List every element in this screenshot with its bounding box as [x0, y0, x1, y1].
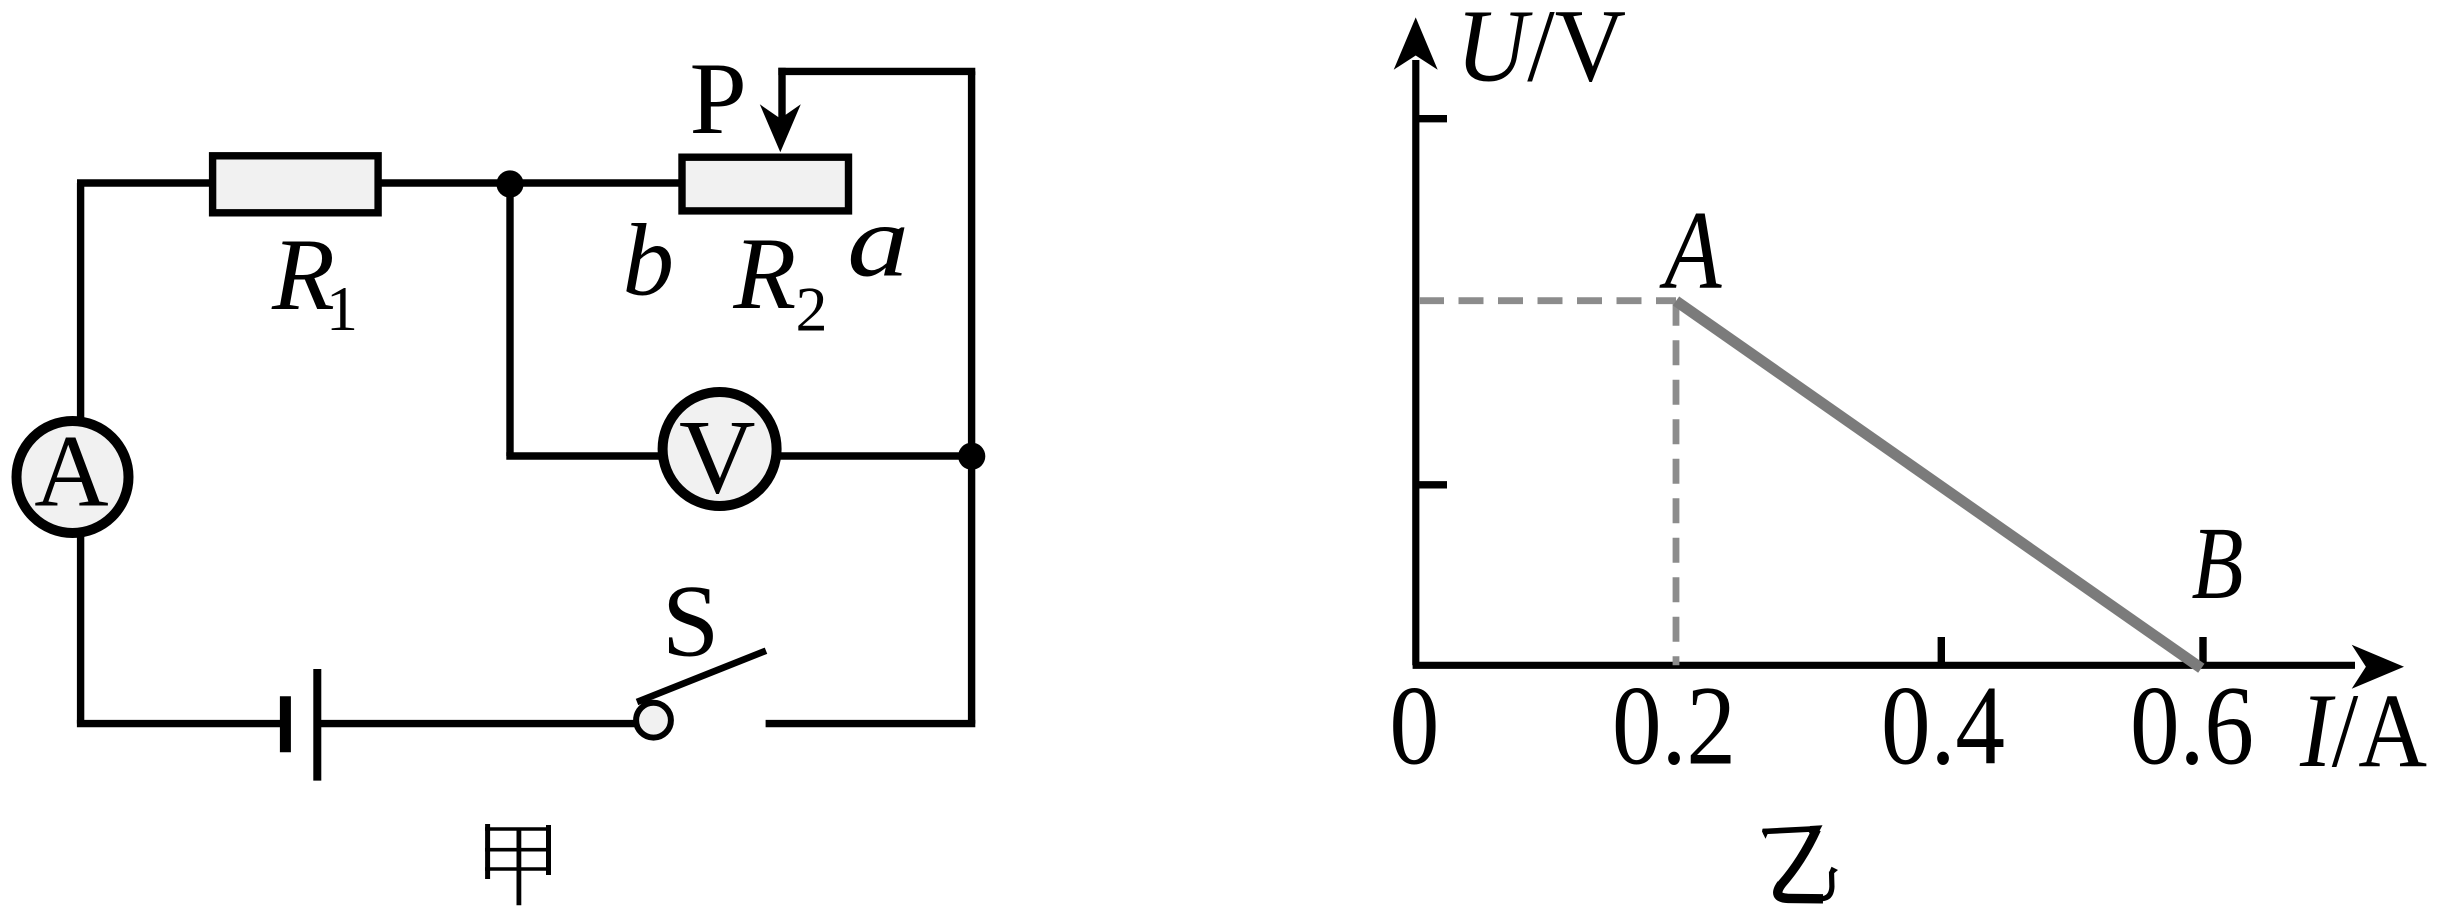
x-axis arrowhead — [2352, 645, 2404, 689]
svg-text:b: b — [623, 204, 675, 318]
wire R1 to R2 — [375, 179, 685, 186]
svg-text:B: B — [2192, 506, 2244, 621]
svg-text:a: a — [847, 185, 909, 299]
voltmeter V circle — [663, 392, 777, 506]
x-axis tick 0.4 — [1938, 637, 1945, 665]
wire to voltmeter — [506, 452, 971, 459]
caption jia (circuit) — [485, 824, 551, 905]
wire bottom left — [77, 720, 285, 727]
x-axis tick 0.6 — [2199, 637, 2206, 665]
battery cell negative short plate — [280, 696, 291, 752]
svg-text:2: 2 — [796, 274, 828, 345]
svg-text:P: P — [690, 42, 747, 156]
dashed guide horizontal to A — [1419, 297, 1676, 304]
wire switch to right — [766, 720, 976, 727]
wire left vertical — [77, 183, 84, 724]
svg-text:R: R — [732, 217, 796, 331]
node junction dot left — [496, 170, 523, 197]
wire battery to switch — [321, 720, 640, 727]
wire top to wiper — [778, 68, 975, 75]
switch S pivot circle — [636, 703, 671, 738]
y-axis tick upper — [1416, 115, 1447, 122]
svg-text:U/V: U/V — [1456, 0, 1626, 104]
ammeter A1 circle — [17, 421, 129, 533]
svg-text:0.6: 0.6 — [2130, 664, 2254, 789]
y-axis tick lower — [1416, 481, 1447, 488]
wire right vertical — [968, 71, 975, 723]
x-axis I/A — [1413, 662, 2355, 669]
svg-text:A: A — [34, 414, 108, 528]
svg-text:0.2: 0.2 — [1612, 664, 1736, 789]
wire junction vertical — [506, 184, 513, 456]
caption yi (graph) — [1763, 829, 1832, 899]
y-axis U/V — [1412, 60, 1419, 665]
node junction dot right — [958, 443, 985, 470]
svg-text:I/A: I/A — [2299, 672, 2427, 789]
graph line A to B — [1676, 301, 2201, 668]
wire top-left horizontal — [77, 179, 215, 186]
resistor R1 — [213, 156, 379, 213]
svg-text:1: 1 — [326, 273, 358, 344]
svg-text:0: 0 — [1389, 664, 1439, 789]
svg-text:S: S — [662, 565, 719, 679]
battery cell positive long plate — [313, 669, 321, 781]
svg-text:A: A — [1659, 189, 1722, 313]
rheostat wiper arrow — [760, 104, 801, 152]
rheostat R2 body — [682, 157, 849, 211]
svg-text:V: V — [679, 399, 756, 516]
switch S lever — [637, 651, 766, 702]
dashed guide vertical from A — [1673, 301, 1680, 666]
svg-text:0.4: 0.4 — [1881, 664, 2005, 789]
y-axis arrowhead — [1394, 17, 1438, 69]
